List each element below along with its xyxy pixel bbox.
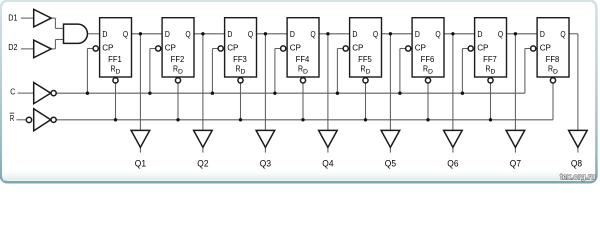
svg-text:D: D bbox=[540, 29, 545, 39]
svg-text:CP: CP bbox=[540, 43, 552, 53]
svg-text:Q: Q bbox=[560, 29, 566, 39]
svg-text:Q8: Q8 bbox=[571, 158, 582, 168]
svg-text:Q: Q bbox=[498, 29, 504, 39]
svg-text:Q4: Q4 bbox=[322, 158, 333, 168]
svg-text:D: D bbox=[178, 68, 183, 75]
svg-text:D: D bbox=[227, 29, 232, 39]
svg-text:D: D bbox=[303, 68, 308, 75]
svg-text:D: D bbox=[415, 29, 420, 39]
svg-text:D: D bbox=[428, 68, 433, 75]
svg-text:Q2: Q2 bbox=[197, 158, 208, 168]
svg-text:D: D bbox=[241, 68, 246, 75]
svg-text:Q3: Q3 bbox=[260, 158, 271, 168]
svg-text:D2: D2 bbox=[8, 43, 18, 52]
svg-text:CP: CP bbox=[102, 43, 114, 53]
svg-text:CP: CP bbox=[477, 43, 489, 53]
svg-text:D: D bbox=[491, 68, 496, 75]
svg-text:C: C bbox=[10, 88, 15, 97]
svg-text:D: D bbox=[116, 68, 121, 75]
svg-text:R: R bbox=[10, 114, 15, 123]
svg-text:Q5: Q5 bbox=[385, 158, 396, 168]
svg-text:D1: D1 bbox=[8, 14, 18, 23]
svg-text:Q: Q bbox=[310, 29, 316, 39]
svg-text:Q: Q bbox=[248, 29, 254, 39]
svg-text:D: D bbox=[477, 29, 482, 39]
svg-text:Q: Q bbox=[123, 29, 129, 39]
svg-text:CP: CP bbox=[165, 43, 177, 53]
svg-text:CP: CP bbox=[352, 43, 364, 53]
svg-text:D: D bbox=[165, 29, 170, 39]
svg-text:Q: Q bbox=[373, 29, 379, 39]
svg-text:tex.org.ru: tex.org.ru bbox=[560, 171, 595, 181]
svg-text:CP: CP bbox=[415, 43, 427, 53]
svg-text:Q6: Q6 bbox=[447, 158, 458, 168]
svg-text:D: D bbox=[553, 68, 558, 75]
svg-text:D: D bbox=[102, 29, 107, 39]
svg-text:Q: Q bbox=[435, 29, 441, 39]
svg-text:CP: CP bbox=[290, 43, 302, 53]
svg-text:CP: CP bbox=[227, 43, 239, 53]
svg-text:Q7: Q7 bbox=[510, 158, 521, 168]
svg-text:Q1: Q1 bbox=[135, 158, 146, 168]
svg-text:Q: Q bbox=[185, 29, 191, 39]
svg-text:D: D bbox=[290, 29, 295, 39]
svg-text:D: D bbox=[366, 68, 371, 75]
svg-text:D: D bbox=[352, 29, 357, 39]
